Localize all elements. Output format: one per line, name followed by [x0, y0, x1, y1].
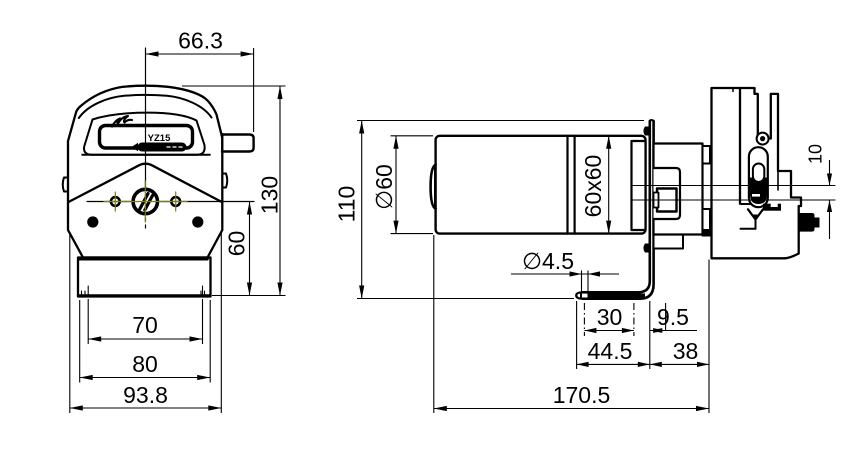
- logo squiggle: [112, 116, 132, 127]
- front view: horizontal centerline through rotor: [87, 201, 254, 203]
- svg-text:80: 80: [132, 351, 158, 377]
- pump head outer silhouette: [68, 86, 222, 258]
- dim 93.8 line: [70, 407, 222, 409]
- roller capsule: [753, 164, 764, 183]
- hub block: [654, 144, 703, 235]
- occlusion bar: [763, 204, 781, 211]
- svg-text:66.3: 66.3: [178, 28, 223, 54]
- dim texts side view: [334, 144, 826, 408]
- dim 38 line: [650, 363, 709, 365]
- head flange upper lug: [703, 146, 711, 164]
- lever / knob: [222, 135, 254, 152]
- arrows side view: [359, 121, 832, 412]
- mounting plate: [650, 120, 654, 122]
- plate screw top: [643, 127, 649, 136]
- dim 110 extension lines: [357, 120, 644, 122]
- dim 66.3 line: [146, 53, 254, 55]
- side view: tube line: [631, 185, 835, 187]
- olive center marks: [104, 181, 187, 222]
- shaft coupler: [657, 189, 677, 212]
- front view: vertical centerline: [145, 48, 147, 213]
- svg-text:∅60: ∅60: [371, 164, 397, 210]
- svg-text:44.5: 44.5: [588, 338, 633, 364]
- svg-text:YZ15: YZ15: [148, 133, 171, 144]
- face panel outline: [84, 113, 205, 155]
- clamp pivot circle: [757, 133, 769, 145]
- dim 110 line: [361, 121, 363, 299]
- svg-text:10: 10: [806, 144, 826, 164]
- foot hole white gap: [582, 294, 588, 298]
- connector blob: [799, 213, 815, 232]
- motor flange vertical: [566, 136, 568, 234]
- foot dark fill: [580, 293, 645, 297]
- right side ear tab: [223, 174, 228, 188]
- svg-text:93.8: 93.8: [123, 382, 168, 408]
- svg-text:38: 38: [673, 338, 699, 364]
- label dark capsule: [132, 143, 139, 152]
- head flange lower lug: [703, 209, 711, 236]
- right mounting hole: [192, 216, 203, 227]
- dim 9.5 line: [650, 330, 697, 332]
- dim 60 line: [249, 202, 251, 296]
- dim O4.5 hole edges: [581, 271, 583, 293]
- panel bottom separation line: [82, 154, 210, 156]
- pump head side silhouette: [712, 88, 802, 258]
- foot left cap: [576, 292, 583, 298]
- dim 60x60 line: [608, 136, 610, 234]
- label plate: [100, 126, 193, 149]
- dome inner curve: [79, 95, 212, 118]
- left side ear tab: [63, 178, 68, 192]
- funnel spout: [755, 221, 757, 229]
- svg-text:170.5: 170.5: [553, 382, 611, 408]
- dim 130 extension lines: [182, 85, 286, 87]
- svg-text:130: 130: [257, 176, 283, 214]
- dim 66.3 extension lines: [253, 48, 255, 132]
- base bottom edge: [78, 294, 211, 296]
- tube dark lower part: [750, 178, 767, 205]
- chevron line left: [69, 164, 222, 202]
- motor body: [436, 136, 646, 234]
- arrows front view: [70, 51, 283, 410]
- svg-text:60x60: 60x60: [580, 155, 606, 218]
- rotor hub circle with hatching: [133, 189, 157, 213]
- dash-dot hole center extensions: [584, 303, 634, 336]
- head inner casing edge: [777, 171, 779, 190]
- svg-text:9.5: 9.5: [657, 304, 689, 330]
- dim 30 line: [584, 330, 634, 332]
- svg-text:30: 30: [597, 304, 623, 330]
- dim 80 line: [80, 377, 211, 379]
- head top tick: [732, 88, 734, 92]
- dim 170.5 line: [434, 408, 709, 410]
- left bolt circle: [111, 197, 120, 206]
- dim 130 line: [279, 86, 281, 296]
- dim 10 extension overlap handled by centerlines: [829, 160, 831, 186]
- motor end cap: [431, 165, 436, 209]
- hub step block: [654, 168, 681, 219]
- svg-text:70: 70: [132, 312, 158, 338]
- bottom extension lines: [576, 301, 578, 369]
- dim 44.5 line: [577, 363, 650, 365]
- dim O60 line: [395, 136, 397, 234]
- dim 70 extension lines: [87, 299, 89, 344]
- plate screw bottom: [643, 244, 649, 253]
- side view: main horizontal centerline: [631, 199, 835, 201]
- right bolt circle: [171, 197, 180, 206]
- left mounting hole: [87, 216, 98, 227]
- base top thick edge: [80, 257, 207, 261]
- base block: [78, 258, 211, 297]
- svg-text:110: 110: [334, 186, 360, 223]
- svg-text:60: 60: [224, 231, 250, 257]
- gearbox face plate: [632, 141, 646, 230]
- dim 80 extension lines: [79, 300, 81, 383]
- tube capsule: [749, 147, 768, 207]
- dim O4.5 line: [511, 273, 619, 275]
- dim 70 line: [88, 338, 202, 340]
- funnel V: [748, 209, 763, 219]
- dim O60 extension lines: [391, 135, 434, 137]
- dim texts front view: [123, 28, 282, 409]
- base feet ticks: [82, 286, 205, 295]
- svg-text:∅4.5: ∅4.5: [522, 248, 574, 274]
- dim 93.8 extension lines: [69, 233, 71, 413]
- bed step line: [741, 203, 750, 205]
- head internal vertical edge: [739, 88, 741, 204]
- lower boss: [654, 235, 684, 249]
